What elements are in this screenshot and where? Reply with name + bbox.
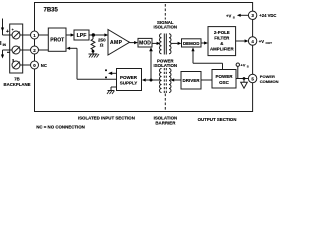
label + [6, 29, 9, 35]
resistor 250 ohm [91, 35, 95, 54]
node junction at pin 5 wire [243, 77, 246, 80]
svg-text:ISOLATION: ISOLATION [154, 63, 178, 68]
svg-text:SUPPLY: SUPPLY [120, 81, 138, 86]
wire driver to transformer with arrow [170, 78, 181, 81]
label OUTPUT SECTION [198, 117, 237, 122]
wire screw3 to NC pin [20, 64, 31, 66]
svg-text:+: + [6, 29, 9, 35]
pin 3 [248, 11, 256, 19]
label 7B35 [44, 7, 59, 13]
block POWER OSC [212, 70, 236, 89]
wire -input with current arrow out [1, 50, 12, 59]
screw terminal 3 [12, 59, 20, 70]
power common triangle symbol [241, 79, 248, 89]
svg-text:S: S [233, 15, 235, 19]
block MOD [138, 38, 152, 47]
wire driver to power osc [201, 79, 212, 81]
svg-text:3: 3 [12, 59, 14, 63]
label ISOLATION BARRIER [154, 115, 178, 125]
wire +VS arrow from pin 3 [237, 14, 248, 17]
wire MOD to signal transformer with arrow [152, 42, 160, 45]
wire supply output left with arrow [105, 69, 117, 78]
svg-text:BARRIER: BARRIER [155, 120, 176, 125]
label +VS at power osc [240, 62, 248, 68]
node +VS tap [236, 63, 239, 79]
svg-text:DRIVER: DRIVER [182, 78, 200, 83]
wire PROT to LPF with arrow [66, 33, 74, 36]
label POWER COMMON [260, 74, 279, 84]
svg-text:COMMON: COMMON [260, 79, 279, 84]
wire LPF to AMP [89, 33, 108, 36]
label IIN [0, 41, 7, 47]
svg-text:ISOLATED INPUT SECTION: ISOLATED INPUT SECTION [78, 115, 135, 120]
pin 1 [31, 31, 39, 39]
wire transformer to DEMOD with arrow [171, 42, 182, 45]
label 250 ohm [98, 38, 106, 48]
svg-text:S: S [247, 64, 249, 68]
isolation barrier dashed line bottom [164, 94, 166, 112]
label POWER ISOLATION [154, 59, 178, 69]
7B backplane connector box [10, 24, 23, 73]
screw terminal field - [12, 46, 20, 54]
svg-text:BACKPLANE: BACKPLANE [4, 82, 31, 87]
pin 4 [248, 37, 256, 45]
svg-text:+24 VDC: +24 VDC [259, 13, 276, 18]
block 2-POLE FILTER AMPLIFIER [208, 27, 236, 56]
transformer T1 signal isolation [160, 34, 172, 55]
wire +input with current arrow [1, 19, 12, 36]
wire screw1 to pin 1 [20, 34, 31, 36]
op-amp AMP [108, 30, 130, 56]
svg-text:OUTPUT SECTION: OUTPUT SECTION [198, 117, 237, 122]
svg-text:7B: 7B [14, 77, 20, 82]
label +VS [226, 13, 235, 19]
label - [7, 51, 10, 53]
label 7B BACKPLANE [4, 77, 31, 88]
svg-text:7B35: 7B35 [44, 7, 59, 13]
svg-text:LPF: LPF [77, 33, 87, 39]
label ISOLATED INPUT SECTION [78, 115, 135, 120]
block DEMOD [182, 39, 202, 47]
wire pin2 to PROT [39, 49, 49, 51]
svg-text:POWER: POWER [120, 75, 138, 80]
block LPF [74, 30, 89, 40]
svg-text:DEMOD: DEMOD [183, 41, 199, 46]
wire junction to MOD with arrow [149, 47, 153, 80]
svg-text:AMP: AMP [110, 40, 123, 46]
svg-text:OUT: OUT [266, 41, 273, 45]
svg-text:MOD: MOD [139, 41, 151, 47]
ground [89, 54, 100, 58]
label +24 VDC [259, 13, 276, 18]
node junction on supply wire [150, 79, 153, 82]
label +VOUT [259, 39, 272, 45]
wire screw2 to pin 2 [20, 49, 31, 51]
transformer T2 power isolation [160, 68, 172, 93]
block PROT [48, 28, 66, 51]
screw terminal field + [12, 27, 21, 39]
wire DEMOD to filter with arrow [201, 41, 208, 44]
svg-text:PROT: PROT [50, 38, 64, 44]
pin 5 [248, 74, 256, 82]
svg-text:ISOLATION: ISOLATION [154, 25, 178, 30]
wire pin1 to PROT [39, 34, 49, 36]
pin 2 [31, 46, 39, 54]
label NC [41, 63, 47, 68]
node junction at resistor [92, 33, 95, 36]
svg-text:2-POLE: 2-POLE [214, 30, 230, 35]
wire transformer to power supply with arrow [142, 78, 161, 81]
svg-text:POWER: POWER [215, 74, 233, 79]
svg-text:NC = NO CONNECTION: NC = NO CONNECTION [36, 125, 85, 130]
svg-text:AMPLIFIER: AMPLIFIER [210, 47, 234, 52]
svg-text:+V: +V [259, 39, 264, 44]
ground at power supply [107, 87, 117, 94]
wire power osc to DEMOD with arrow [191, 47, 222, 69]
svg-text:+V: +V [240, 62, 245, 67]
label NC = NO CONNECTION [36, 125, 85, 130]
pin 0 NC [31, 61, 39, 69]
isolation barrier dashed line top [164, 4, 166, 20]
svg-text:+V: +V [226, 13, 231, 18]
module outline box [35, 3, 253, 112]
label SIGNAL ISOLATION [154, 20, 178, 30]
svg-text:FILTER: FILTER [214, 36, 230, 41]
block DRIVER [181, 72, 201, 90]
svg-text:IN: IN [3, 43, 7, 47]
svg-text:Ω: Ω [100, 43, 104, 48]
wire power osc to pin 5 [236, 78, 248, 80]
svg-text:OSC: OSC [219, 80, 230, 85]
svg-text:NC: NC [41, 63, 47, 68]
wire filter to pin 4 with arrow [236, 39, 249, 42]
block POWER SUPPLY [117, 69, 142, 91]
wire AMP to MOD with arrow [130, 41, 138, 44]
wire supply to PROT with arrow [66, 47, 116, 80]
